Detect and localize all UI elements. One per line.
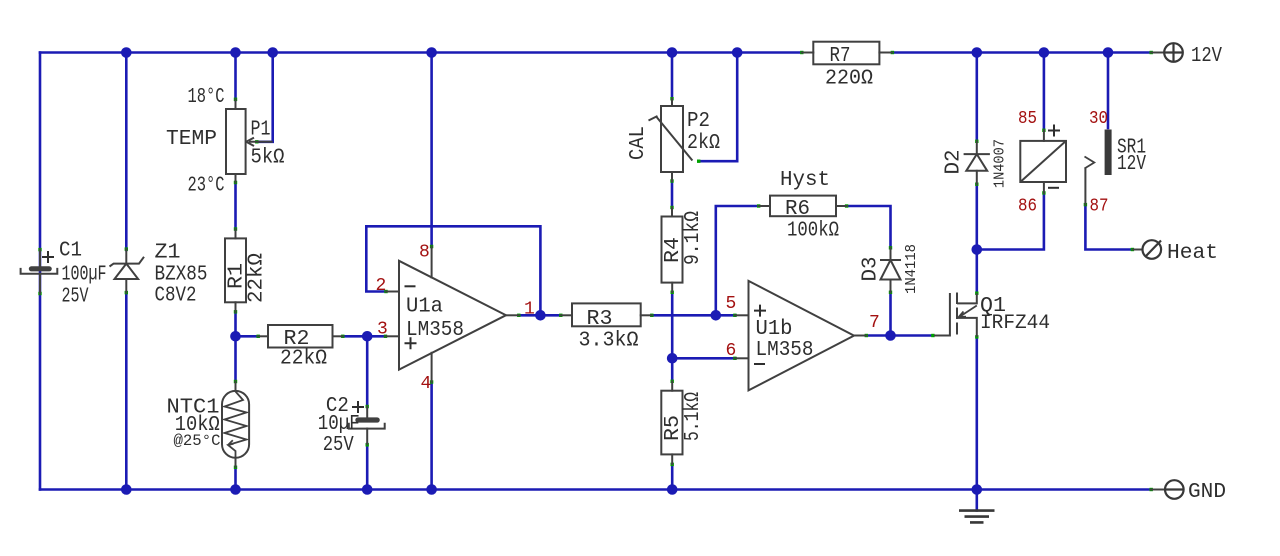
wire R4 to node6 [671,292,674,358]
transistor Q1 gate electrode [934,293,950,336]
thermistor NTC1 zigzag [225,392,247,458]
svg-text:100kΩ: 100kΩ [787,220,839,243]
svg-text:C8V2: C8V2 [155,285,197,308]
op-amp U1a triangle [399,261,506,370]
capacitor C1 lead bottom [39,274,41,294]
U1b plus input mark [754,305,766,317]
svg-text:23°C: 23°C [188,175,225,198]
svg-text:22kΩ: 22kΩ [246,253,269,303]
relay coil plus [1048,125,1060,137]
node 5 R3/R6 [711,310,722,321]
capacitor C2 minus plate [349,423,385,429]
U1a plus input mark [405,337,417,349]
svg-text:BZX85: BZX85 [155,264,208,287]
op-amp U1b triangle [749,281,855,391]
wire node5 up to R6 left [716,206,759,315]
transistor Q1 channel dashes [956,293,958,335]
U1a output stub [506,314,519,316]
capacitor C1 plus plate [29,266,52,271]
zener Z1 lead top [125,249,127,264]
svg-text:U1a: U1a [406,296,443,319]
trimmer P2 wiper diagonal [649,116,693,161]
GND terminal stub [1151,489,1165,491]
relay SR1 contact bar [1105,130,1112,176]
wire node6 to R5 [671,358,674,381]
resistor R5 body [661,391,682,455]
wire R6 right to D3 [847,206,891,248]
junction NTC1/GND [230,484,241,495]
diode D3 lead bottom [890,280,892,293]
node 6 R4/R5 [667,353,678,364]
wire D3 to output node [889,293,892,336]
svg-text:25V: 25V [62,286,89,309]
svg-text:C1: C1 [59,240,82,263]
node R1/R2/NTC1 [230,331,241,342]
junction C2/GND [362,484,373,495]
svg-text:Z1: Z1 [155,242,181,265]
relay SR1 contact arrow [1085,157,1095,169]
wire Q1 source to GND rail [975,337,978,490]
Heat terminal stub [1133,249,1143,251]
relay coil minus [1048,187,1059,189]
resistor R6 stub left [759,205,770,207]
resistor R5 stub bottom [671,454,673,464]
wire U1b output to Q1 gate [866,334,933,337]
diode D2 triangle [966,154,987,171]
junction Z1/+12V [121,47,132,58]
U1a minus input mark [405,285,416,287]
svg-text:Heat: Heat [1167,242,1218,265]
junction U1a pin8/+12V [426,47,437,58]
wire +12V to P2 [671,53,674,100]
svg-text:IRFZ44: IRFZ44 [980,312,1050,335]
svg-text:5: 5 [726,294,737,314]
svg-text:CAL: CAL [627,126,650,160]
svg-text:86: 86 [1018,197,1037,217]
svg-text:12V: 12V [1191,45,1222,68]
junction P2 wiper/+12V [732,47,743,58]
wire P1 wiper to +12V [257,53,273,142]
potentiometer P1 stub top [235,99,237,109]
wire drain node to relay coil minus [977,193,1044,250]
wire node to C2 [366,336,369,407]
diode D3 cathode bar [880,259,901,261]
capacitor C2 plus plate [355,417,380,422]
svg-text:25V: 25V [323,434,354,457]
svg-text:R7: R7 [830,45,851,68]
wire P2 to R4 [671,181,674,208]
resistor R4 body [662,217,683,283]
node R2/C2/pin3 [362,331,373,342]
svg-text:6: 6 [726,341,737,361]
U1a pin2 stub [386,291,399,293]
transistor Q1 bulk arrow [959,306,977,318]
potentiometer P1 wiper arrow [246,138,273,146]
svg-text:P1: P1 [251,119,271,142]
relay pin87 lead [1084,169,1086,205]
svg-text:7: 7 [869,313,880,333]
junction R5/GND [667,484,678,495]
svg-text:GND: GND [1188,481,1226,504]
svg-text:@25°C: @25°C [174,432,221,450]
wire NTC1 to GND rail [234,467,237,490]
C2 polarity plus [352,401,364,413]
svg-text:9.1kΩ: 9.1kΩ [682,211,705,265]
svg-text:30: 30 [1089,109,1108,129]
resistor R4 stub bottom [671,283,673,292]
wire node to NTC1 [234,336,237,381]
svg-text:18°C: 18°C [188,86,225,109]
U1a pin8 stub [431,247,433,278]
svg-text:220Ω: 220Ω [825,68,873,91]
wire C2 to GND rail [366,444,369,490]
wire drain node to Q1 drain [975,250,978,294]
svg-text:D3: D3 [860,257,883,282]
wire Z1 top [125,53,128,251]
resistor R7 body [813,42,879,65]
svg-text:10µF: 10µF [318,413,360,436]
wire +12V top rail right segment [893,51,1152,54]
svg-text:2: 2 [376,276,387,296]
wire U1a output to R3 [519,314,562,317]
wire +12V top rail left segment [40,51,802,54]
resistor R4 stub top [671,208,673,217]
svg-text:5kΩ: 5kΩ [251,147,285,170]
svg-text:87: 87 [1090,197,1109,217]
svg-text:3.3kΩ: 3.3kΩ [579,330,639,353]
wire +12V to SR1 contact 30 [1107,53,1110,129]
U1a pin4 stub [431,353,433,382]
node U1a output/feedback [535,310,546,321]
capacitor C2 lead top [366,407,368,418]
thermistor NTC1 arrow [228,440,234,445]
thermistor NTC1 stub bottom [235,458,237,467]
relay SR1 coil diagonal [1020,141,1066,182]
junction P1 wiper/+12V [267,47,278,58]
relay coil stub top [1043,130,1045,141]
wire P2 wiper to +12V [699,53,738,162]
junction relay/+12V [1039,47,1050,58]
wire R2 to U1a pin3 [343,335,386,338]
svg-text:85: 85 [1018,109,1037,129]
svg-text:12V: 12V [1117,153,1146,176]
zener Z1 lead bottom [125,279,127,293]
C1 polarity plus [42,251,54,263]
wire node to R2 [236,335,259,338]
wire node6 to U1b pin6 [672,357,735,360]
wire U1a feedback loop pin2-output [366,226,540,315]
green pin-connection marks [38,248,41,251]
junction D2/+12V [972,47,983,58]
transistor Q1 drain lead [957,293,977,303]
diode D3 triangle [881,260,901,280]
wire +12V to relay coil plus [1043,53,1046,131]
wire GND bottom rail [40,488,1151,491]
capacitor C1 lead top [39,250,41,267]
U1b output stub [854,335,866,337]
diode D2 cathode bar [964,153,990,155]
svg-text:TEMP: TEMP [166,128,217,151]
zener Z1 triangle [115,264,139,279]
wire R3 to U1b pin5 [652,314,736,317]
resistor R7 stub right [879,52,892,54]
wire P1 to R1 [234,182,237,230]
resistor R3 body [572,303,641,326]
relay coil stub bottom [1043,182,1045,193]
diode D2 lead top [976,141,978,154]
thermistor NTC1 body [222,391,249,458]
resistor R7 stub left [802,52,814,54]
wire Z1 bottom [125,293,128,490]
svg-text:R6: R6 [785,198,810,221]
resistor R2 stub right [333,335,343,337]
resistor R3 stub right [641,314,652,316]
junction P1/+12V [230,47,241,58]
svg-text:4: 4 [421,374,432,394]
resistor R3 stub left [561,314,572,316]
resistor R2 stub left [258,335,268,337]
resistor R1 body [225,238,246,302]
12V terminal stub [1151,52,1164,54]
capacitor C2 lead bottom [366,429,368,445]
trimmer P2 stub top [671,99,673,106]
svg-text:D2: D2 [943,150,966,175]
svg-text:22kΩ: 22kΩ [280,348,327,371]
wire U1a pin4 to GND rail [430,382,433,490]
trimmer P2 stub bottom [671,172,673,181]
U1b pin5 stub [735,314,749,316]
wire D2 to drain node [975,185,978,250]
diode D3 lead top [890,248,892,260]
svg-text:8: 8 [419,243,430,263]
resistor R1 stub bottom [235,302,237,312]
svg-text:5.1kΩ: 5.1kΩ [682,392,705,441]
node D2/coil/drain [972,244,983,255]
potentiometer P1 stub bottom [235,174,237,183]
trimmer P2 body [661,106,683,172]
wire +12V to U1a pin8 [430,53,433,248]
svg-text:2kΩ: 2kΩ [687,132,720,155]
resistor R5 stub top [671,382,673,391]
U1b pin6 stub [735,357,749,359]
wire R5 to GND rail [671,464,674,490]
U1a pin3 stub [386,335,400,337]
wire left rail (C1 branch) [39,53,42,490]
svg-text:1N4118: 1N4118 [903,244,920,294]
junction Q1 source/GND [972,484,983,495]
node U1b output/D3 [885,330,896,341]
thermistor NTC1 stub top [235,382,237,391]
junction U1a pin4/GND [426,484,437,495]
U1b minus input mark [754,363,765,365]
wire P1 top [234,53,237,101]
resistor R2 body [268,325,333,348]
transistor Q1 source lead [957,318,977,337]
wire SR1 pin87 to Heat [1085,205,1132,250]
wire GND stub [975,490,978,511]
capacitor C1 minus plate [21,268,58,274]
svg-text:U1b: U1b [756,318,793,341]
junction P2/+12V [667,47,678,58]
svg-text:100µF: 100µF [62,264,107,287]
resistor R6 stub right [836,205,847,207]
svg-text:R3: R3 [587,308,613,331]
svg-text:Hyst: Hyst [780,169,830,192]
relay SR1 coil body [1020,141,1066,182]
junction SR1/+12V [1103,47,1114,58]
svg-text:3: 3 [377,320,388,340]
zener Z1 cathode bar [110,257,145,267]
svg-text:LM358: LM358 [406,319,464,342]
ground symbol [959,511,995,523]
svg-text:LM358: LM358 [756,339,814,362]
svg-text:1N4007: 1N4007 [992,139,1009,188]
svg-text:1: 1 [524,300,535,320]
wire R1 to node [234,312,237,337]
wire +12V to D2 [975,53,978,142]
resistor R1 stub top [235,229,237,238]
GND terminal symbol [1165,480,1184,499]
diode D2 lead bottom [976,171,978,184]
Heat terminal symbol [1143,240,1162,259]
potentiometer P1 body [226,109,246,174]
resistor R6 body [770,196,836,217]
junction Z1/GND [121,484,132,495]
svg-text:P2: P2 [687,110,710,133]
12V terminal symbol [1164,43,1183,62]
